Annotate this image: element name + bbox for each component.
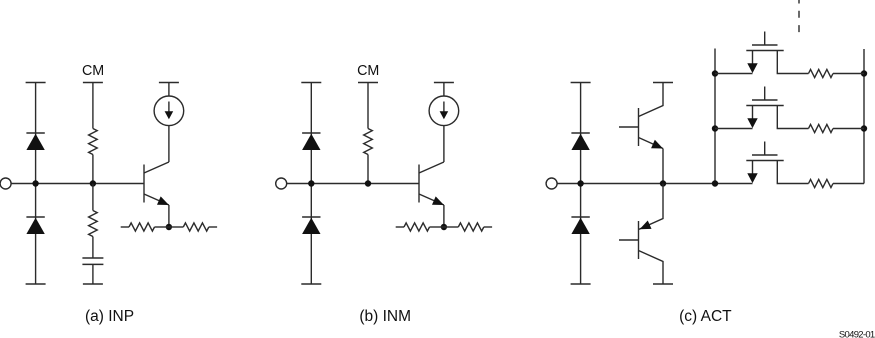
wire resistor R1b to node (367, 155, 369, 184)
wire capacitor C1 to bottom bar (92, 264, 94, 284)
node dot ACT diode column (577, 180, 583, 186)
terminal bar bottom of INP diode column (26, 283, 46, 285)
node dot right rail row2 (861, 125, 867, 131)
wire resistor R2a to capacitor C1 (92, 237, 94, 259)
diode D-upper INP (26, 132, 44, 134)
wire resistor R3c to right rail (833, 183, 864, 185)
transistor Q4 emitter (639, 184, 664, 230)
wire I1 top (168, 83, 170, 97)
transistor M1 gate bar (752, 44, 778, 46)
diode D-upper ACT (571, 132, 589, 134)
terminal bar Q3 collector (653, 82, 673, 84)
resistor R3a left (121, 226, 129, 228)
transistor M3 source with arrow (752, 161, 754, 176)
node dot B (b) (365, 180, 371, 186)
wire Q1 collector to current source I1 (168, 126, 170, 162)
terminal bar bottom of INM diode column (301, 283, 321, 285)
wire resistor R1a to node (92, 155, 94, 184)
transistor M2 drain (777, 106, 808, 129)
wire right rail (c) (863, 49, 865, 184)
svg-text:CM: CM (82, 63, 104, 79)
wire INP diode column (35, 83, 37, 285)
terminal bar bottom of ACT diode column (571, 283, 591, 285)
svg-text:CM: CM (357, 63, 379, 79)
input terminal INP (0, 178, 11, 189)
terminal bar Q4 collector (653, 283, 673, 285)
svg-text:S0492-01: S0492-01 (839, 330, 875, 338)
resistor R1a (89, 129, 98, 155)
transistor Q2 base bar (418, 165, 420, 203)
svg-text:(c) ACT: (c) ACT (679, 308, 732, 325)
transistor Q4 collector (639, 251, 664, 285)
diode D-lower INP (26, 216, 44, 218)
transistor M1 channel bar (746, 50, 783, 52)
transistor M2 gate stub (764, 87, 766, 101)
transistor Q1 collector (144, 162, 169, 173)
transistor M1 drain (777, 51, 808, 74)
resistor R1b (364, 129, 373, 155)
wire INM input to transistor Q2 base (287, 183, 419, 185)
transistor M3 channel bar (746, 160, 783, 162)
transistor Q3 collector (639, 83, 664, 117)
wire Q2 emitter down (443, 205, 445, 227)
wire node to resistor R2a (92, 184, 94, 211)
current source I2 arrow (443, 102, 445, 113)
transistor Q1 base bar (143, 165, 145, 203)
resistor R2a (89, 211, 98, 237)
wire row1 left rail to M1 source (715, 73, 753, 75)
transistor M3 gate bar (752, 154, 778, 156)
current source I1 circle (154, 96, 184, 126)
wire I2 top (443, 83, 445, 97)
terminal bar CM (a) (83, 82, 103, 84)
transistor M2 channel bar (746, 105, 783, 107)
transistor Q4 base stub (619, 239, 639, 241)
node dot INP diode column (32, 180, 38, 186)
terminal bar top of INM diode column (301, 82, 321, 84)
current source I1 arrow (168, 102, 170, 113)
node dot Q2 emitter (441, 224, 447, 230)
input terminal INM (276, 178, 287, 189)
transistor Q3 emitter (639, 138, 664, 149)
wire INM diode column (310, 83, 312, 285)
terminal bar CM (b) (358, 82, 378, 84)
resistor R3b left (396, 226, 404, 228)
transistor Q4 base bar (638, 221, 640, 259)
current source I2 circle (429, 96, 459, 126)
input terminal ACT (546, 178, 557, 189)
wire row3 drain segment (776, 183, 778, 185)
wire left rail (c) (714, 49, 716, 184)
resistor R2c (809, 124, 834, 132)
wire resistor R2c to right rail (833, 128, 864, 130)
transistor M2 gate bar (752, 99, 778, 101)
wire ACT input node row (557, 183, 752, 185)
node dot left rail row3 (712, 180, 718, 186)
node dot left rail row2 (712, 125, 718, 131)
transistor Q1 emitter (144, 194, 169, 205)
terminal bar top of INP diode column (26, 82, 46, 84)
dashed continuation line (798, 0, 800, 33)
node dot left rail row1 (712, 70, 718, 76)
node dot Q1 emitter (166, 224, 172, 230)
transistor Q3 base stub (619, 126, 639, 128)
diode D-lower ACT (571, 216, 589, 218)
transistor M3 drain (777, 161, 808, 184)
node dot right rail row1 (861, 70, 867, 76)
transistor Q2 emitter (419, 194, 444, 205)
diode D-lower INM (302, 216, 320, 218)
current source I1 top terminal bar (159, 82, 179, 84)
wire ACT diode column (580, 83, 582, 285)
transistor M2 source with arrow (752, 106, 754, 121)
svg-text:(b) INM: (b) INM (359, 308, 411, 325)
transistor M1 gate stub (764, 32, 766, 46)
node dot Q3/Q4 emitter (660, 180, 666, 186)
terminal bar top of ACT diode column (571, 82, 591, 84)
wire Q1 emitter down (168, 205, 170, 227)
resistor R1c (809, 69, 834, 77)
wire CM (a) to resistor R1a (92, 83, 94, 129)
transistor M1 source with arrow (752, 51, 754, 66)
capacitor C1 (82, 257, 103, 259)
wire CM (b) to resistor R1b (367, 83, 369, 129)
wire Q2 collector to current source I2 (443, 126, 445, 162)
resistor R4a right (169, 226, 183, 228)
diode D-upper INM (302, 132, 320, 134)
svg-text:(a) INP: (a) INP (85, 308, 134, 325)
node dot A (a) (90, 180, 96, 186)
transistor M3 gate stub (764, 142, 766, 156)
terminal bar bottom capacitor column (a) (83, 283, 103, 285)
transistor Q3 base bar (638, 108, 640, 146)
resistor R4b right (444, 226, 458, 228)
current source I2 top terminal bar (434, 82, 454, 84)
wire resistor R1c to right rail (833, 73, 864, 75)
node dot INM diode column (308, 180, 314, 186)
transistor Q2 collector (419, 162, 444, 173)
resistor R3c (809, 179, 834, 187)
wire INP input to transistor Q1 base (11, 183, 144, 185)
wire row2 left rail to M2 source (715, 128, 753, 130)
